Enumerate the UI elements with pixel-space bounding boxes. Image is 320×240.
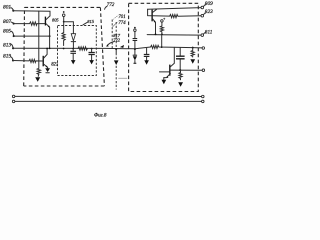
svg-text:823: 823 (205, 9, 213, 15)
svg-text:809: 809 (205, 1, 213, 7)
svg-text:819: 819 (3, 54, 11, 60)
svg-text:801: 801 (3, 4, 11, 10)
svg-text:805: 805 (52, 17, 59, 22)
svg-text:701: 701 (118, 15, 125, 20)
svg-text:811: 811 (205, 30, 213, 36)
svg-text:774: 774 (118, 21, 126, 26)
svg-text:821: 821 (51, 63, 58, 68)
svg-text:805: 805 (3, 28, 11, 34)
svg-text:813: 813 (3, 43, 11, 49)
svg-text:772: 772 (107, 2, 115, 8)
svg-text:Фиг.8: Фиг.8 (94, 113, 107, 119)
svg-text:815: 815 (87, 19, 95, 24)
svg-text:807: 807 (3, 19, 11, 25)
